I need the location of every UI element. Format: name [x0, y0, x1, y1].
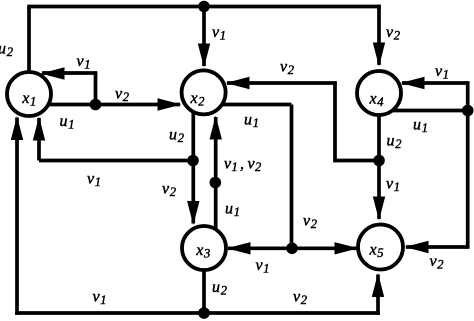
- wire left into x5 right: [405, 241, 470, 253]
- wire left into x4 right: [401, 77, 468, 89]
- node x1: [7, 72, 51, 116]
- wire x2 bottom down: [191, 92, 195, 160]
- label v1 top-mid: [212, 24, 226, 43]
- wire right column upper: [466, 81, 470, 110]
- wire x3 bottom down: [202, 248, 206, 313]
- wire x2 right out: [204, 103, 292, 107]
- wire top down into x2: [198, 7, 210, 68]
- wire left column into x1: [11, 116, 23, 315]
- junction dot x3-x5 line: [286, 243, 298, 255]
- label u2 top-left: [0, 41, 13, 60]
- node x5: [358, 225, 403, 270]
- junction dot right column: [462, 105, 474, 117]
- wire left toward x1: [39, 159, 193, 163]
- label v2 bottom right: [293, 289, 307, 308]
- junction dot x1 loop: [90, 99, 102, 111]
- wire down into x3 top: [187, 161, 199, 226]
- wire right column lower: [466, 111, 470, 248]
- node x3: [182, 226, 226, 270]
- label u2 below x4: [387, 133, 402, 152]
- label u2 below x2: [169, 127, 184, 146]
- label v1 above x5: [386, 176, 400, 195]
- label v2 above x3: [162, 181, 176, 200]
- node x2: [182, 70, 226, 114]
- label v1 right of x4: [435, 63, 449, 82]
- label v1 self-loop: [77, 53, 91, 72]
- label u2 below x3: [212, 279, 227, 298]
- label v2 x1 to x2: [115, 86, 129, 105]
- junction dot bottom: [198, 307, 210, 319]
- label v1 below x3-x5 line: [256, 257, 270, 276]
- wire bottom left: [15, 311, 204, 315]
- wire up into x5 bottom: [372, 273, 384, 315]
- label u1 right of x4: [413, 117, 428, 136]
- wire bottom right: [204, 311, 380, 315]
- junction dot below x4: [373, 155, 385, 167]
- label u1 right of x2: [244, 112, 259, 131]
- junction dot below x2: [187, 155, 199, 167]
- label v2 x4 to x2: [280, 59, 294, 78]
- wire loop up: [94, 73, 98, 105]
- wire x4 right out: [379, 109, 468, 113]
- label u1 above x3: [225, 201, 240, 220]
- wire down column 291: [290, 105, 294, 249]
- label v2 top-right: [386, 24, 400, 43]
- wire top down into x4: [373, 5, 385, 67]
- label v1,v2: [224, 156, 261, 175]
- wire up into x1 bottom-right: [33, 117, 45, 161]
- label v1 mid-left: [87, 171, 101, 190]
- junction dot x3 to x2: [210, 177, 222, 189]
- wire elbow left and up: [335, 83, 379, 162]
- junction dot top: [198, 1, 210, 13]
- wire x1 right out: [29, 103, 96, 107]
- wire x3 up into x2 bottom: [210, 116, 222, 249]
- label u1 below x1: [60, 113, 75, 132]
- node x4: [357, 71, 401, 115]
- label v2 column 291: [303, 213, 317, 232]
- label v2 right of x5: [430, 253, 444, 272]
- wire x1 top up: [27, 7, 31, 95]
- wire right into x2 left: [96, 98, 182, 110]
- wire loop left into x1: [41, 67, 98, 79]
- label v1 bottom left: [93, 289, 107, 308]
- wire down into x5 top: [373, 161, 385, 221]
- wire top horizontal: [27, 5, 381, 9]
- wire right into x5 left: [292, 242, 359, 254]
- wire left into x3 right: [227, 242, 293, 254]
- wire x4 bottom down: [377, 93, 381, 161]
- wire left into x2 right: [226, 77, 337, 89]
